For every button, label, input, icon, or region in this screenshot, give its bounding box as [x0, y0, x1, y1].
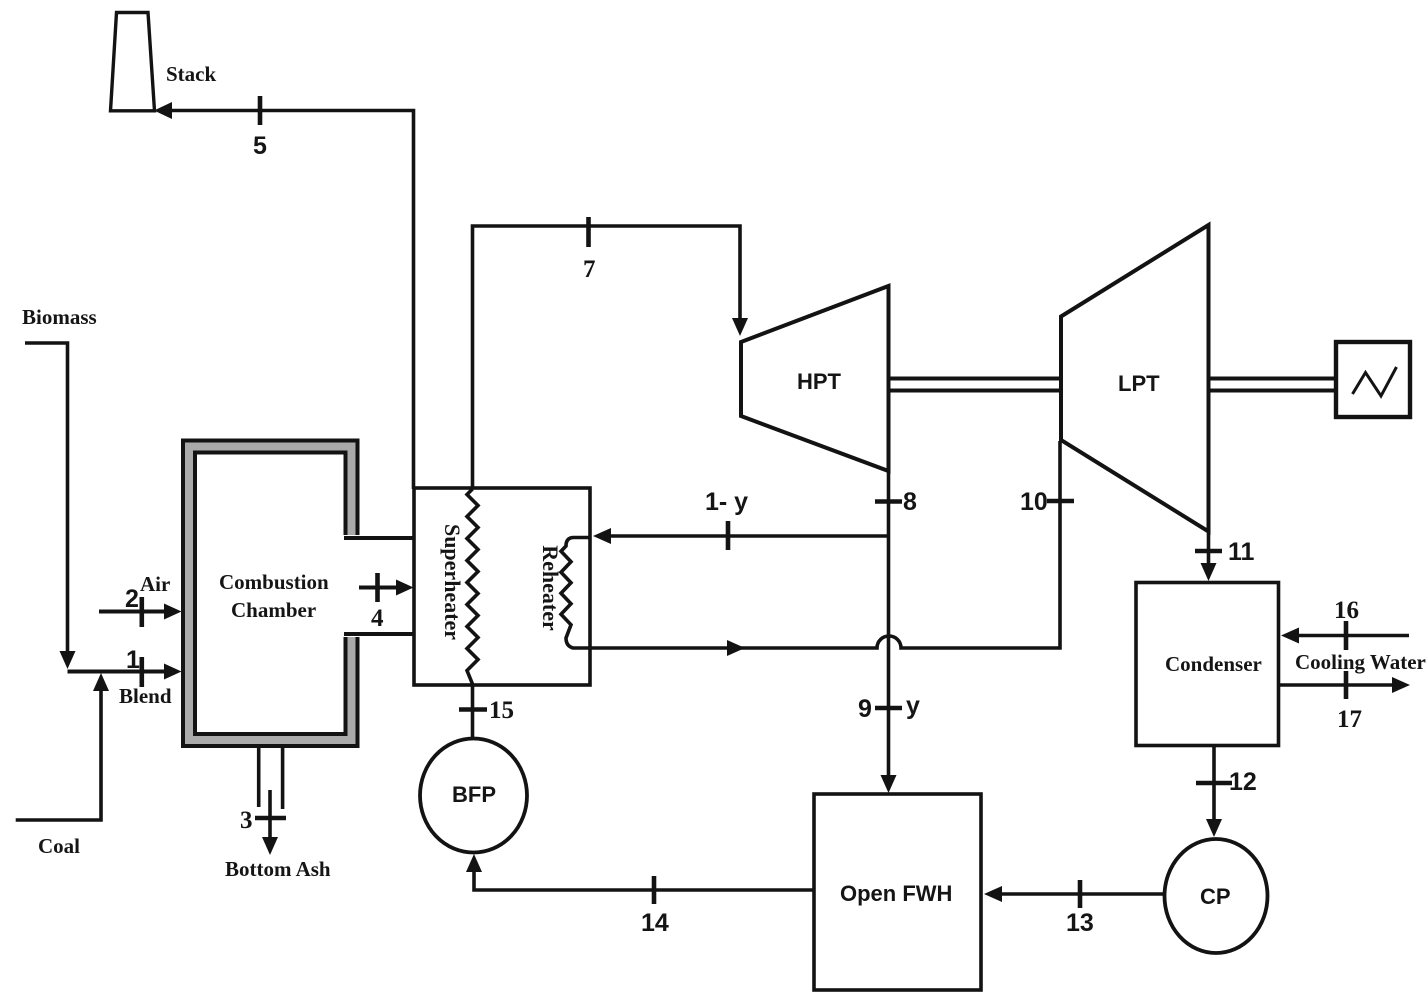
svg-text:5: 5	[253, 132, 267, 160]
node 1 tick	[140, 657, 145, 687]
wire steam line 7 superheater to HPT	[473, 226, 749, 489]
node 10 tick	[1047, 499, 1074, 504]
wire cooling water in 16	[1281, 628, 1409, 644]
node 3 tick	[255, 816, 286, 821]
svg-text:4: 4	[371, 605, 384, 632]
node 8 tick	[875, 499, 902, 504]
feedwater heater Open FWH	[814, 794, 981, 990]
bottom ash chute	[259, 748, 283, 810]
wire shaft HPT-LPT	[889, 379, 1062, 391]
node 1-y tick	[726, 521, 731, 550]
turbine LPT	[1061, 225, 1209, 532]
svg-text:7: 7	[583, 256, 596, 283]
svg-text:1: 1	[126, 646, 140, 674]
svg-text:y: y	[906, 692, 920, 720]
superheater reheater box	[414, 488, 590, 685]
svg-text:Coal: Coal	[38, 834, 80, 858]
turbine HPT	[741, 286, 889, 471]
reheater coil	[538, 538, 590, 649]
wire flue duct top	[344, 536, 414, 540]
wire flow 4 into superheater	[359, 580, 414, 596]
svg-text:17: 17	[1337, 706, 1362, 733]
svg-text:Chamber: Chamber	[231, 598, 316, 622]
svg-text:Blend: Blend	[119, 684, 172, 708]
node 14 tick	[652, 876, 657, 904]
wire line 1-y HPT exhaust to reheater	[593, 528, 889, 544]
svg-text:14: 14	[641, 909, 669, 937]
wire line 12 condenser to CP	[1206, 746, 1222, 838]
svg-text:1- y: 1- y	[705, 488, 748, 516]
svg-text:BFP: BFP	[452, 782, 496, 807]
svg-text:Open FWH: Open FWH	[840, 881, 952, 906]
wire shaft LPT-generator	[1209, 379, 1336, 391]
generator	[1336, 342, 1410, 417]
svg-text:12: 12	[1229, 768, 1257, 796]
pump BFP	[420, 739, 527, 853]
wire line 8-9 HPT exhaust down to Open FWH	[881, 471, 897, 793]
svg-text:Cooling Water: Cooling Water	[1295, 650, 1426, 674]
node 4 tick	[375, 573, 380, 602]
node 15 tick	[459, 707, 487, 712]
svg-text:Air: Air	[140, 572, 170, 596]
node 12 tick	[1196, 781, 1232, 786]
wire air line 2 into chamber	[99, 604, 182, 620]
svg-text:11: 11	[1228, 538, 1255, 566]
svg-text:8: 8	[903, 488, 917, 516]
svg-text:Combustion: Combustion	[219, 570, 329, 594]
wire reheat return line to LPT with hop	[590, 441, 1060, 656]
node 16 tick	[1344, 621, 1349, 650]
svg-text:Reheater: Reheater	[538, 545, 563, 631]
coal feed	[16, 673, 109, 858]
svg-text:Bottom Ash: Bottom Ash	[225, 857, 331, 881]
wire line 11 LPT to condenser	[1201, 532, 1217, 582]
node 2 tick	[140, 597, 145, 627]
stack	[111, 13, 217, 111]
svg-text:LPT: LPT	[1118, 371, 1160, 396]
superheater coil	[440, 489, 478, 684]
node 7 tick	[586, 217, 591, 247]
svg-text:16: 16	[1334, 597, 1359, 624]
biomass feed	[22, 305, 97, 669]
wire flue duct bottom	[344, 632, 414, 636]
svg-text:Stack: Stack	[166, 62, 216, 86]
svg-text:Biomass: Biomass	[22, 305, 97, 329]
node 9 tick	[875, 706, 902, 711]
wire line 13 CP to Open FWH	[984, 886, 1165, 902]
svg-text:Superheater: Superheater	[440, 524, 465, 640]
wire line 15 superheater to BFP	[471, 684, 475, 739]
svg-text:13: 13	[1066, 909, 1094, 937]
node 5 tick	[258, 96, 263, 125]
svg-text:CP: CP	[1200, 884, 1231, 909]
pump CP	[1165, 839, 1268, 953]
wire bottom ash flow 3	[262, 790, 278, 855]
combustion chamber wall	[189, 447, 352, 741]
node 17 tick	[1344, 671, 1349, 699]
condenser	[1136, 583, 1279, 746]
wire cooling water out 17	[1279, 677, 1411, 693]
wire flue-gas line 5 to stack	[154, 102, 414, 489]
svg-text:9: 9	[858, 695, 872, 723]
svg-text:2: 2	[125, 585, 139, 613]
svg-text:3: 3	[240, 807, 253, 834]
wire line 14 Open FWH to BFP	[466, 854, 814, 890]
wire blend line 1 into chamber	[68, 664, 182, 680]
node 11 tick	[1195, 549, 1222, 554]
svg-text:Condenser: Condenser	[1165, 652, 1262, 676]
svg-text:10: 10	[1020, 488, 1048, 516]
svg-text:HPT: HPT	[797, 369, 842, 394]
node 13 tick	[1078, 880, 1083, 908]
svg-text:15: 15	[489, 697, 514, 724]
